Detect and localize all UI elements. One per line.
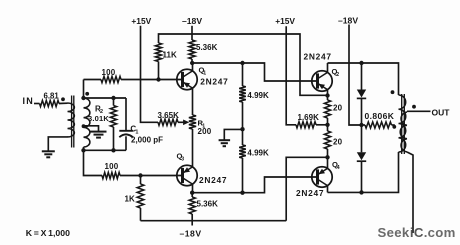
- svg-text:4: 4: [337, 165, 340, 171]
- svg-text:20: 20: [333, 104, 343, 113]
- node 4.99K midpoint: [240, 127, 244, 131]
- node 1K top junction: [138, 173, 142, 177]
- node 4.99K top junction: [240, 61, 244, 65]
- resistor 20 upper: [324, 100, 330, 118]
- diode D1: [361, 63, 363, 90]
- wire top feedback rail: [159, 34, 328, 95]
- svg-text:iC: iC: [410, 225, 424, 240]
- node R2 top junction: [111, 96, 115, 100]
- ground input primary: [42, 150, 55, 152]
- svg-text:2N247: 2N247: [304, 52, 332, 62]
- node 11K junction on Q1 base: [156, 77, 160, 81]
- svg-text:6.81: 6.81: [44, 91, 60, 100]
- wire 5.36K lower to rail stub: [191, 214, 193, 226]
- wire Q2 collector up: [327, 63, 329, 73]
- wire 11K bottom to base line: [158, 62, 160, 80]
- wire Q2 collector line to T2: [328, 63, 399, 95]
- svg-text:3: 3: [181, 156, 184, 162]
- svg-text:1.69K: 1.69K: [298, 113, 320, 122]
- resistor 100 upper: [101, 76, 121, 82]
- svg-text:–18V: –18V: [338, 15, 358, 25]
- resistor R2 3.01K: [113, 98, 115, 106]
- transformer T1 core: [71, 96, 73, 148]
- wire -18V right down: [349, 25, 362, 126]
- svg-text:–18V: –18V: [182, 16, 202, 26]
- wire T2 secondary bottom: [407, 152, 413, 233]
- ground center tap: [91, 131, 107, 133]
- potentiometer R1 200: [189, 115, 196, 129]
- node 4.99K bottom junction: [240, 191, 244, 195]
- svg-text:3.01K: 3.01K: [88, 114, 109, 123]
- wire 1K to -18V rail: [140, 208, 142, 221]
- wire 3.65K arrow to R1 wiper: [178, 121, 185, 123]
- wire bottom line to R2 C1 bottoms: [84, 149, 127, 151]
- resistor 20 lower: [324, 131, 330, 149]
- wire Q4 collector down: [327, 185, 329, 192]
- svg-text:–18V: –18V: [180, 228, 202, 238]
- phasing dot T1 secondary: [85, 92, 89, 96]
- wire 100 to Q1 base: [121, 79, 183, 81]
- node T2 center tap: [392, 125, 396, 129]
- resistor 5.36K upper: [189, 40, 195, 59]
- wire 20 upper to mid: [327, 118, 329, 131]
- phasing dot T2 secondary: [412, 105, 416, 109]
- wire 4.99K bottom to rail: [242, 158, 244, 193]
- svg-text:100: 100: [102, 68, 116, 77]
- resistor 1.69K: [296, 122, 316, 128]
- wire Q4 collector rail to T2: [328, 152, 399, 192]
- svg-text:4.99K: 4.99K: [247, 91, 269, 100]
- node T1 center tap: [82, 124, 86, 128]
- node secondary top junction: [81, 96, 85, 100]
- transistor Q2 2N247: [312, 71, 332, 91]
- wire -18V bottom rail: [141, 220, 287, 222]
- svg-text:11K: 11K: [163, 50, 177, 59]
- resistor 6.81: [40, 100, 60, 106]
- wire Q3 collector to Q4 base: [192, 177, 317, 193]
- wire 20 lower to Q4 emitter: [327, 149, 329, 168]
- wire Q1 base line left: [84, 79, 102, 81]
- transformer T1 secondary winding: [84, 98, 90, 147]
- svg-text:3.65K: 3.65K: [158, 111, 180, 120]
- wire midpoint to ground: [224, 129, 242, 140]
- phasing dot T2 primary: [391, 90, 395, 94]
- svg-text:Seek: Seek: [378, 225, 410, 240]
- capacitor C1 2000pF: [125, 98, 127, 131]
- svg-text:0.806K: 0.806K: [365, 111, 395, 121]
- resistor 11K: [155, 43, 161, 62]
- transformer T2 core: [401, 94, 403, 154]
- wire 4.99K mid: [242, 102, 244, 145]
- wire Q1 collector to Q2 base: [192, 63, 317, 81]
- transformer T2 primary winding: [399, 95, 406, 152]
- wire 5.36K to Q1 collector node: [191, 59, 193, 63]
- svg-text:1: 1: [135, 129, 138, 135]
- svg-text:4.99K: 4.99K: [247, 149, 269, 158]
- wire -18V to 5.36K: [191, 26, 193, 40]
- svg-text:200: 200: [198, 127, 212, 136]
- wire secondary top branch to R2 C1: [84, 97, 127, 99]
- resistor 100 lower: [102, 172, 120, 178]
- svg-text:20: 20: [333, 137, 343, 146]
- wire +15V down to 3.65K: [141, 26, 159, 123]
- transistor Q4 2N247: [312, 167, 332, 187]
- svg-text:+15V: +15V: [131, 16, 151, 26]
- resistor 5.36K lower: [191, 193, 193, 197]
- transformer T1 primary winding: [68, 103, 75, 137]
- wire +15V right down to 1.69K: [286, 26, 296, 125]
- node Q1 collector junction: [190, 61, 194, 65]
- wire secondary bottom: [83, 147, 85, 150]
- wire secondary bottom to 100 lower: [84, 150, 103, 175]
- ground divider midpoint: [219, 139, 231, 141]
- node diode top junction: [359, 61, 363, 65]
- svg-text:K = X 1,000: K = X 1,000: [26, 228, 70, 238]
- svg-text:.com: .com: [424, 225, 456, 240]
- svg-text:+15V: +15V: [275, 16, 295, 26]
- wire Q2 emitter down: [327, 89, 329, 100]
- wire 1.69K to emitter mid: [316, 124, 328, 126]
- wire IN to R 6.81: [34, 103, 40, 105]
- diode D2: [361, 125, 363, 152]
- svg-text:2N247: 2N247: [199, 175, 227, 185]
- node diode mid junction: [359, 123, 363, 127]
- node Q3 collector junction: [190, 191, 194, 195]
- wire emitter return to -18V rail: [286, 157, 327, 220]
- svg-text:100: 100: [105, 162, 119, 171]
- phasing dot T1 primary: [61, 97, 65, 101]
- node feedback emitter junction: [325, 93, 329, 97]
- wire T1 primary bottom to ground: [48, 137, 67, 151]
- svg-text:2,000 pF: 2,000 pF: [131, 136, 163, 145]
- wire Q3 collector down: [192, 184, 194, 193]
- resistor 0.806K: [362, 124, 366, 126]
- transformer T2 secondary winding: [400, 112, 407, 152]
- node emitter return junction: [325, 155, 329, 159]
- transistor Q1 2N247: [177, 69, 197, 89]
- wire T1 secondary top to Q1 base line: [83, 80, 85, 99]
- resistor 4.99K upper: [242, 63, 244, 86]
- svg-text:OUT: OUT: [432, 108, 451, 118]
- node diode bottom junction: [359, 190, 363, 194]
- node emitter chain midpoint: [325, 123, 329, 127]
- node R2 bottom junction: [111, 148, 115, 152]
- wire Q1 collector lead: [192, 63, 194, 71]
- svg-text:2N247: 2N247: [296, 188, 324, 198]
- wire center tap to ground: [84, 126, 99, 132]
- wire R1 to Q3 emitter: [192, 129, 194, 167]
- wire R 6.81 to T1 primary: [59, 102, 68, 104]
- svg-text:1K: 1K: [125, 195, 135, 204]
- svg-text:5.36K: 5.36K: [197, 200, 219, 209]
- svg-text:2N247: 2N247: [200, 77, 228, 87]
- resistor 1K: [140, 176, 142, 185]
- wire 100 lower to junction: [120, 175, 141, 177]
- wire OUT: [407, 110, 431, 112]
- svg-text:1: 1: [203, 70, 206, 76]
- wire Q1 emitter to R1: [192, 88, 194, 115]
- svg-text:IN: IN: [23, 96, 34, 106]
- resistor 4.99K lower: [239, 145, 246, 158]
- wire Q3 base lead: [141, 175, 183, 177]
- transistor Q3 2N247: [177, 165, 197, 185]
- resistor 3.65K: [158, 119, 178, 125]
- svg-text:2: 2: [336, 72, 339, 78]
- svg-text:5.36K: 5.36K: [196, 43, 218, 52]
- node secondary bottom junction: [81, 148, 85, 152]
